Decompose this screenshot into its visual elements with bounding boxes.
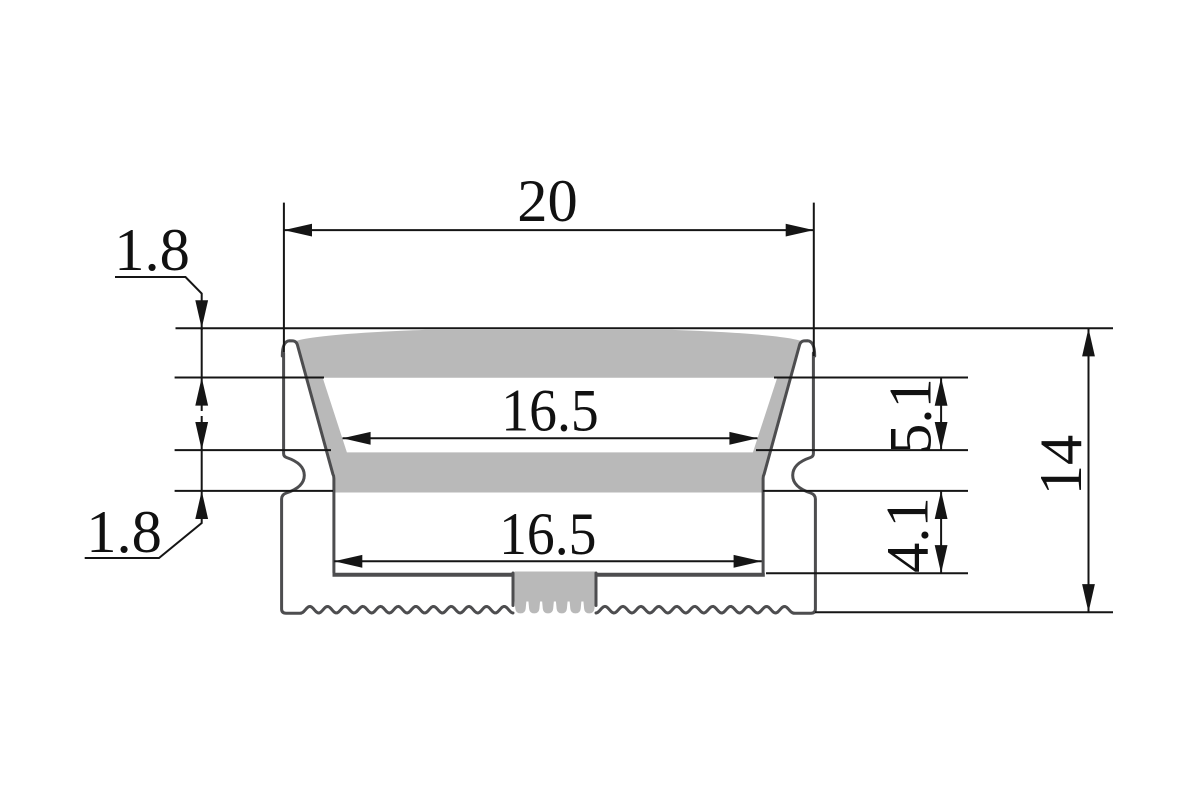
5.1 dim line [940,378,942,451]
gray screw-boss block [515,572,596,602]
20 dim line [284,229,814,231]
14 dim arrowhead up [1082,328,1095,356]
inner shelf thick line right [596,573,765,577]
left outer wall with notch [282,353,305,613]
svg-text:20: 20 [517,168,578,235]
extension line y=490.9 left [175,490,333,492]
1.8 top dim arrowhead up to y=377.5 [195,378,208,406]
16.5 lower dim arrowhead right [734,555,762,568]
right lip + slant + inner wall [763,341,815,573]
gray scallop serration under block [515,601,596,613]
arrowheads [195,224,1095,613]
extension line y=377.5 right [774,377,968,379]
16.5 upper dim line [343,437,758,439]
diffuser + middle band gray silhouette [295,330,801,493]
14 dim line [1088,328,1090,612]
svg-text:16.5: 16.5 [501,377,598,445]
svg-text:5.1: 5.1 [878,378,945,454]
block right side edge [595,573,598,606]
1.8 bottom dim arrowhead up to y=490.9 [195,491,208,519]
20 dim arrowhead left [284,224,312,237]
extension line y=573.2 right [766,572,968,574]
16.5 lower dim line [334,560,762,562]
serrated bottom left [301,606,513,613]
16.5 lower dim arrowhead left [334,555,362,568]
svg-text:4.1: 4.1 [875,497,942,573]
svg-text:1.8: 1.8 [86,499,162,566]
svg-text:14: 14 [1028,435,1095,496]
right outer wall with notch [793,353,816,613]
4.1 dim line [940,491,942,573]
1.8 bottom leader [85,491,202,558]
left lip curl + inner slant wall [282,341,334,573]
20 dim arrowhead right [786,224,814,237]
5.1 dim arrowhead up [935,378,948,406]
dimension graphics [85,203,1113,613]
1.8 top dim arrowhead down to y=328.3 [195,300,208,328]
block left side edge [512,573,515,606]
extension line y=490.9 right [763,490,968,492]
4.1 dim arrowhead down [935,545,948,573]
5.1 dim arrowhead down [935,422,948,450]
top extension line y=328.3 [176,327,1114,329]
extension line y=450.1 right [756,449,968,451]
svg-text:1.8: 1.8 [114,217,190,284]
extension line y=450.1 left [175,449,331,451]
serrated bottom right [596,606,794,613]
14 dim arrowhead down [1082,584,1095,612]
20 dim extension vertical right [813,203,815,356]
svg-text:16.5: 16.5 [499,500,596,568]
1.8 bottom dim arrowhead down to y=450.1 [195,422,208,450]
16.5 upper dim arrowhead left [343,432,371,445]
20 dim extension vertical left [283,203,285,352]
16.5 upper dim arrowhead right [729,432,757,445]
bottom extension line y=612.2 [815,611,1113,613]
extension line y=377.5 left [175,377,324,379]
inner shelf thick line left [333,573,514,577]
1.8 top leader [115,277,202,330]
1.8 vertical between arrows [201,328,203,406]
4.1 dim arrowhead up [935,491,948,519]
white inner cavity cutout [323,378,778,453]
